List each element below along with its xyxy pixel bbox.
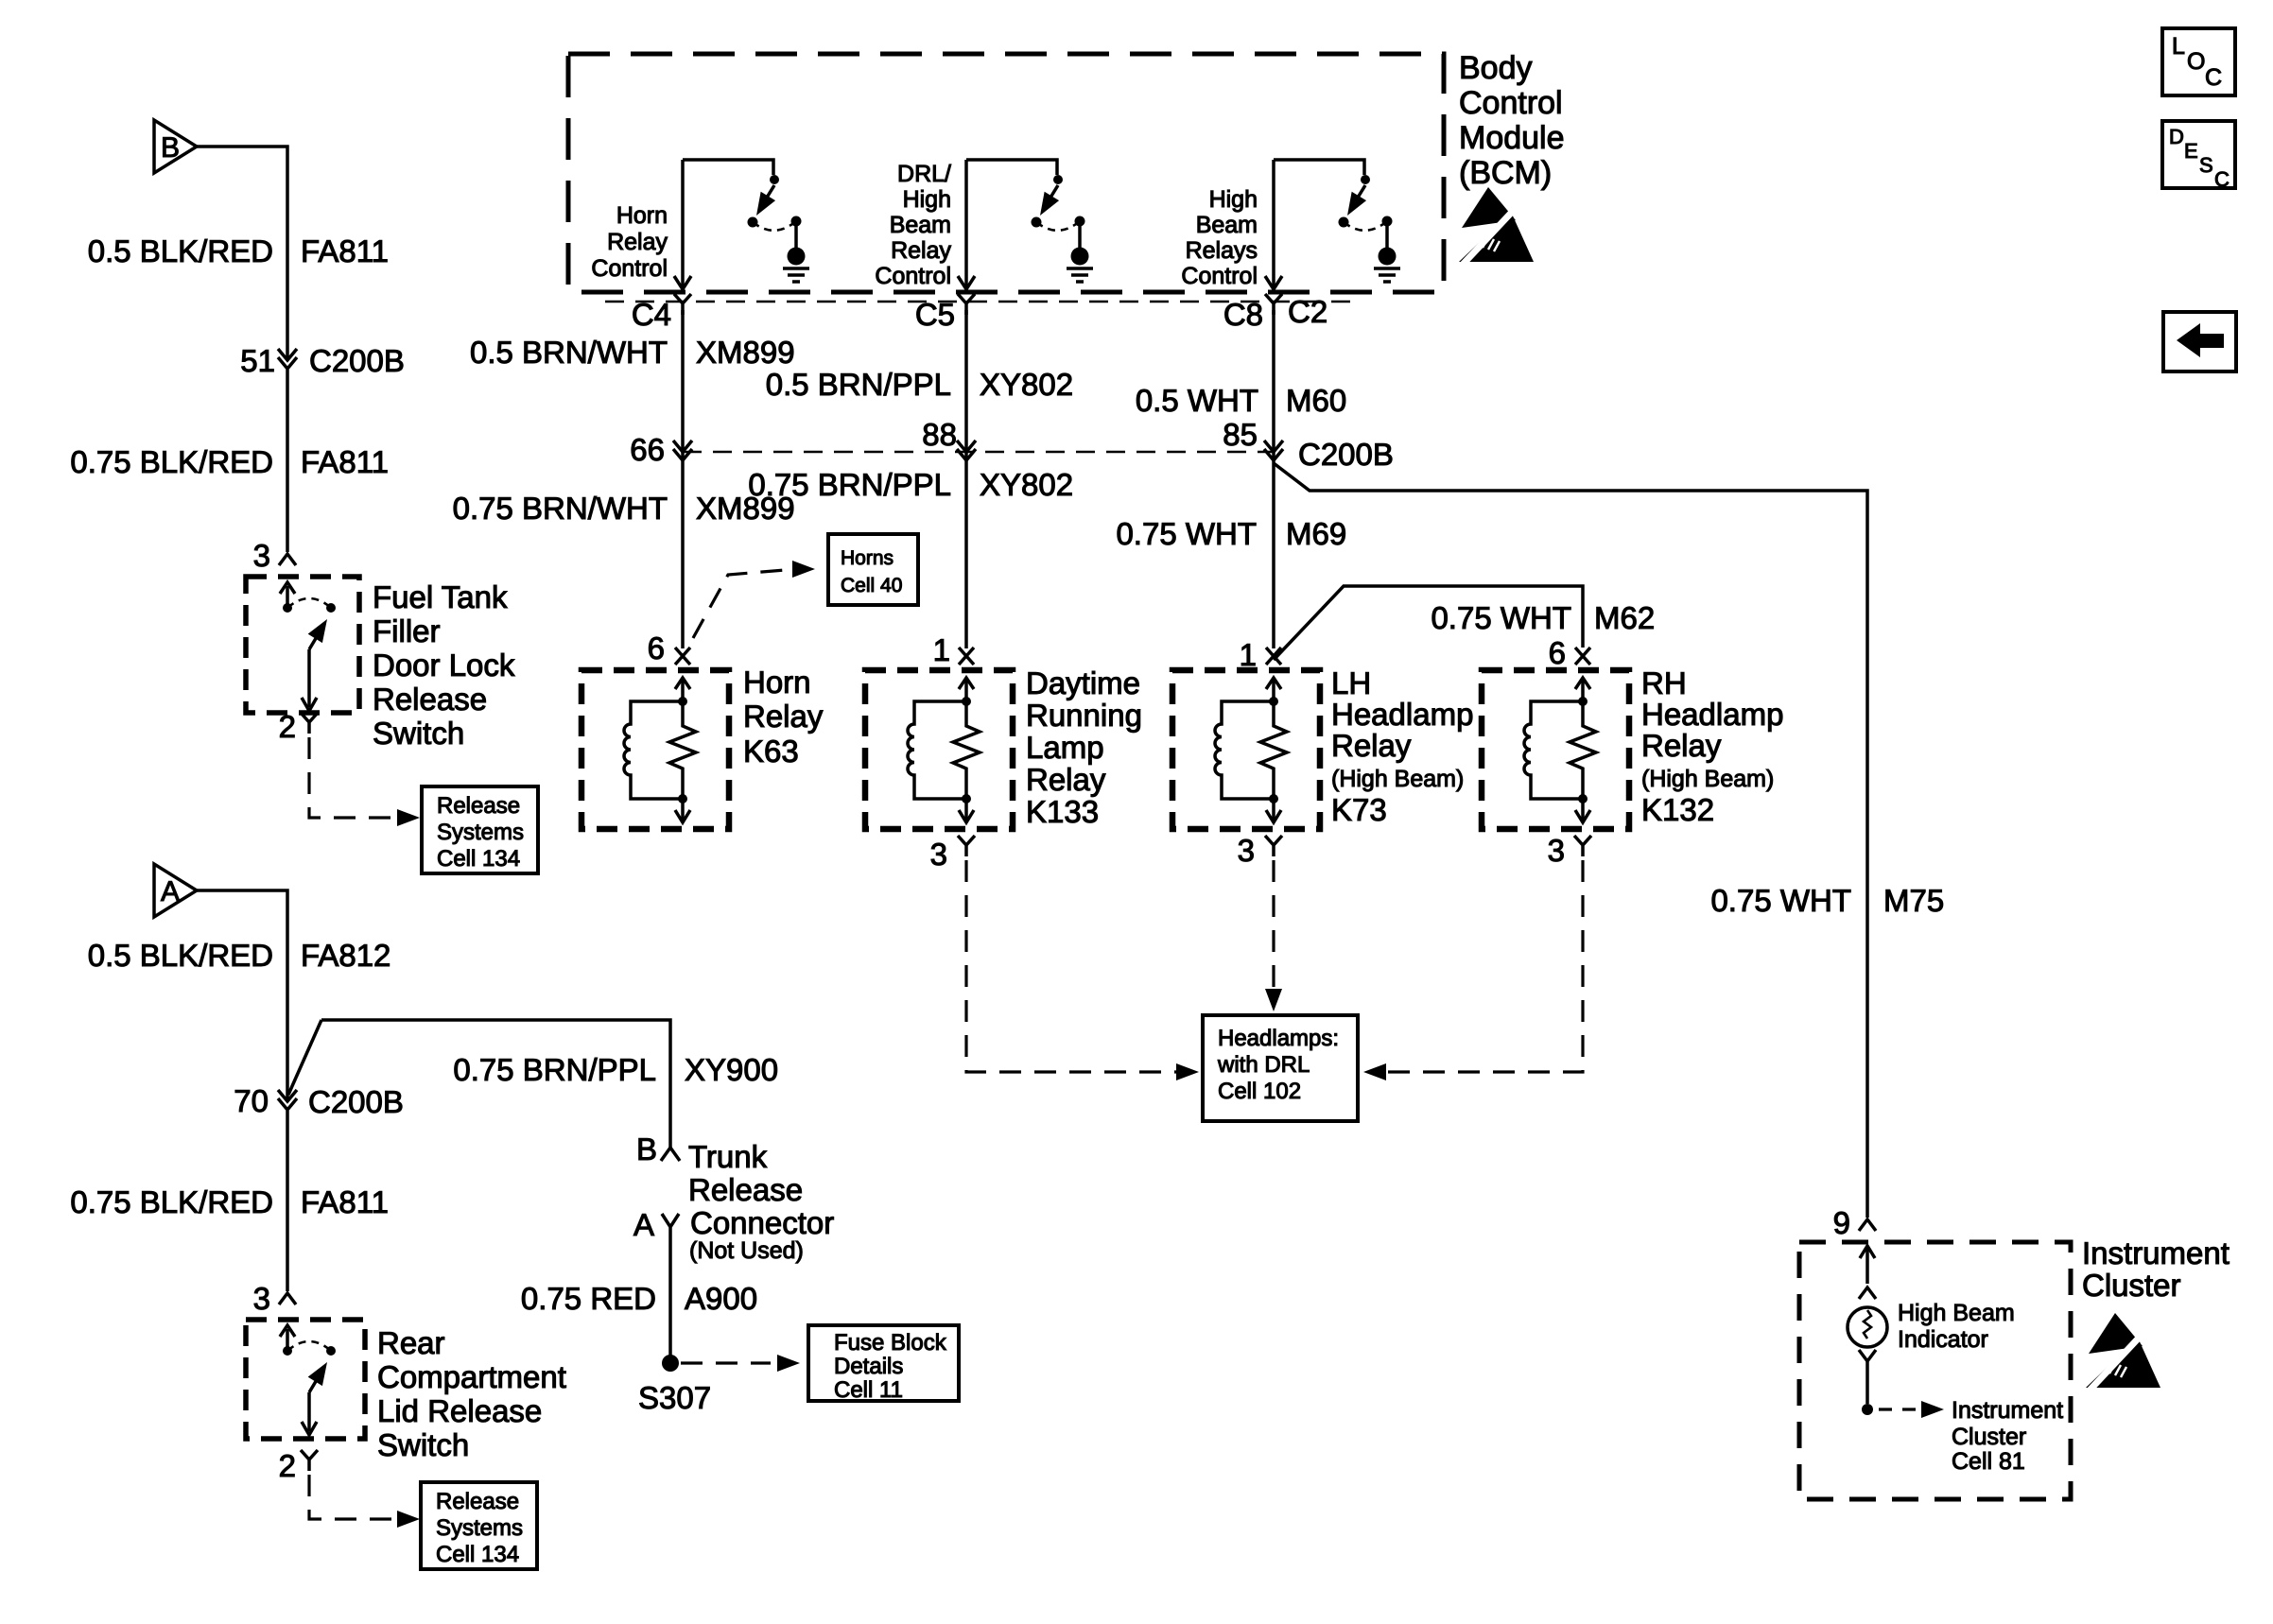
- svg-text:Relays: Relays: [1186, 237, 1258, 264]
- svg-text:0.75 BRN/PPL: 0.75 BRN/PPL: [748, 467, 951, 502]
- label DRL/High Beam Relay Control: [875, 161, 951, 289]
- svg-text:Lamp: Lamp: [1026, 730, 1104, 765]
- splice S307: [662, 1355, 679, 1372]
- svg-text:K133: K133: [1026, 794, 1099, 829]
- svg-text:0.75 WHT: 0.75 WHT: [1116, 516, 1257, 551]
- label Daytime Running Lamp Relay K133: [1026, 665, 1142, 829]
- svg-text:E: E: [2184, 139, 2198, 163]
- LH headlamp relay K73 box: [1172, 670, 1320, 829]
- Fuse Block Details Cell 11 box: [808, 1325, 959, 1401]
- dashed reference wire to release systems cell 134 (lower): [309, 1475, 397, 1519]
- svg-text:with DRL: with DRL: [1217, 1052, 1310, 1078]
- Body Control Module dashed box: [568, 54, 1444, 292]
- svg-text:XM899: XM899: [696, 335, 795, 370]
- svg-text:Lid Release: Lid Release: [377, 1393, 542, 1428]
- daytime running lamp relay K133 coil/resistor: [908, 678, 980, 822]
- back arrow box: [2163, 312, 2236, 371]
- DESC box: [2162, 121, 2235, 188]
- connector B pin (trunk): [661, 1148, 680, 1161]
- svg-text:K73: K73: [1331, 792, 1387, 827]
- connector chevron at indicator: [1859, 1287, 1876, 1299]
- svg-text:FA811: FA811: [301, 1184, 389, 1219]
- connector C8 pin: [1265, 294, 1282, 315]
- label High Beam Indicator: [1898, 1300, 2015, 1353]
- svg-text:Door Lock: Door Lock: [373, 648, 515, 682]
- svg-text:Indicator: Indicator: [1898, 1326, 1988, 1353]
- dashed reference wire to release systems cell 134: [309, 737, 397, 818]
- svg-text:Rear: Rear: [377, 1325, 445, 1360]
- svg-text:Switch: Switch: [373, 716, 464, 751]
- svg-text:Headlamps:: Headlamps:: [1218, 1026, 1339, 1051]
- Headlamps with DRL Cell 102 box: [1203, 1015, 1358, 1121]
- svg-text:0.75 BLK/RED: 0.75 BLK/RED: [70, 1184, 273, 1219]
- svg-text:Systems: Systems: [436, 1515, 523, 1541]
- svg-text:51: 51: [240, 343, 275, 378]
- svg-text:Cluster: Cluster: [1952, 1424, 2026, 1450]
- pin 1 connector (LH relay): [1266, 648, 1281, 665]
- svg-text:66: 66: [630, 432, 665, 467]
- svg-text:Fuel Tank: Fuel Tank: [373, 579, 508, 614]
- label Horn Relay K63: [743, 665, 824, 769]
- label Instrument Cluster Cell 81: [1952, 1397, 2063, 1475]
- svg-text:Release: Release: [436, 1489, 519, 1514]
- label 0.5 BLK/RED FA812: [88, 938, 391, 973]
- pin 9 connector: [1859, 1219, 1876, 1231]
- svg-text:Trunk: Trunk: [688, 1139, 768, 1174]
- rear compartment lid release switch: [280, 1325, 336, 1392]
- svg-text:A900: A900: [685, 1281, 757, 1316]
- daytime running lamp relay K133 box: [865, 670, 1013, 829]
- RH headlamp relay K132 box: [1482, 670, 1629, 829]
- label 0.75 WHT M75: [1710, 883, 1944, 918]
- connector Y below lamp: [1859, 1350, 1876, 1404]
- dashed wire K132 pin3 to headlamps box: [1382, 860, 1583, 1072]
- svg-text:Release: Release: [688, 1172, 803, 1207]
- connector triangle A: [154, 864, 197, 917]
- svg-text:C4: C4: [632, 297, 671, 332]
- svg-text:85: 85: [1223, 417, 1258, 452]
- svg-text:High: High: [903, 186, 951, 213]
- BCM label: [1459, 50, 1565, 191]
- svg-text:3: 3: [930, 837, 947, 872]
- svg-text:C200B: C200B: [1298, 437, 1394, 472]
- svg-text:Relay: Relay: [1331, 728, 1412, 763]
- svg-text:1: 1: [933, 632, 950, 667]
- svg-text:Cell 11: Cell 11: [834, 1377, 903, 1403]
- label LH Headlamp Relay (High Beam) K73: [1331, 665, 1473, 827]
- svg-text:0.5 BRN/PPL: 0.5 BRN/PPL: [766, 367, 951, 402]
- pin 1 connector (DRL relay): [959, 648, 974, 665]
- ESD symbol (cluster): [2086, 1313, 2160, 1394]
- connector 88 C200B: [957, 441, 976, 460]
- LOC box: [2162, 28, 2235, 95]
- horn relay K63 box: [581, 670, 729, 829]
- svg-text:Systems: Systems: [437, 820, 524, 845]
- svg-text:FA811: FA811: [301, 233, 389, 268]
- svg-text:Release: Release: [373, 682, 487, 717]
- svg-text:0.75 BRN/WHT: 0.75 BRN/WHT: [453, 491, 668, 526]
- RH headlamp relay K132 coil/resistor: [1524, 678, 1596, 822]
- svg-text:6: 6: [1549, 635, 1566, 670]
- svg-text:C5: C5: [915, 297, 955, 332]
- svg-text:XY802: XY802: [980, 467, 1073, 502]
- svg-text:0.75 WHT: 0.75 WHT: [1710, 883, 1851, 918]
- svg-text:S307: S307: [638, 1380, 711, 1415]
- connector C4 pin: [674, 294, 691, 315]
- svg-text:S: S: [2199, 153, 2213, 177]
- high beam relays driver switch (BCM internal): [1265, 160, 1400, 289]
- svg-text:0.75 RED: 0.75 RED: [521, 1281, 656, 1316]
- dashed wire K73 pin3 to headlamps box: [1272, 860, 1275, 989]
- label 0.75 WHT M62: [1431, 600, 1655, 635]
- svg-text:XY900: XY900: [685, 1052, 778, 1087]
- wire 0.75 FA811: [286, 370, 289, 552]
- label 0.75 WHT M69: [1116, 516, 1346, 551]
- fuel tank filler door lock release switch box: [246, 577, 359, 713]
- connector 66 C200B: [673, 441, 692, 460]
- svg-text:(High Beam): (High Beam): [1641, 766, 1774, 792]
- svg-text:Daytime: Daytime: [1026, 665, 1140, 700]
- pin 6 connector (horn relay): [675, 648, 690, 665]
- wire XY900 branch: [321, 1020, 670, 1148]
- svg-text:L: L: [2172, 33, 2185, 60]
- connector A pin (trunk): [662, 1214, 679, 1357]
- connector 70 C200B: [278, 1090, 297, 1110]
- wire FA811 from B: [197, 147, 287, 359]
- svg-text:A: A: [161, 876, 180, 907]
- svg-text:Headlamp: Headlamp: [1331, 697, 1473, 732]
- pin 3 connector (K132): [1574, 836, 1591, 856]
- svg-text:FA812: FA812: [301, 938, 390, 973]
- svg-text:Switch: Switch: [377, 1427, 469, 1462]
- pin 3 connector (fuel switch): [279, 554, 296, 565]
- diagonal into connector 70: [288, 1020, 321, 1095]
- svg-text:DRL/: DRL/: [897, 161, 951, 187]
- Horns Cell 40 box: [828, 534, 918, 605]
- label 0.75 BRN/PPL XY802: [748, 467, 1073, 502]
- label 0.75 BLK/RED FA811: [70, 444, 389, 479]
- label 0.5 BRN/PPL XY802: [766, 367, 1073, 402]
- label 0.5 BRN/WHT XM899: [470, 335, 795, 370]
- svg-text:C200B: C200B: [309, 343, 405, 378]
- svg-text:Relay: Relay: [607, 229, 668, 255]
- pin 6 connector (RH relay): [1575, 648, 1590, 665]
- svg-text:B: B: [161, 132, 180, 164]
- svg-text:Control: Control: [1459, 85, 1563, 121]
- svg-text:Control: Control: [875, 263, 951, 289]
- svg-text:3: 3: [1238, 833, 1255, 868]
- svg-text:M69: M69: [1286, 516, 1346, 551]
- svg-text:K63: K63: [743, 734, 799, 769]
- svg-text:Beam: Beam: [1196, 212, 1258, 238]
- svg-text:Instrument: Instrument: [2082, 1235, 2230, 1270]
- svg-text:Cell 102: Cell 102: [1218, 1079, 1301, 1104]
- svg-text:D: D: [2169, 125, 2184, 148]
- label 0.5 BLK/RED FA811: [88, 233, 389, 268]
- svg-text:0.5 BLK/RED: 0.5 BLK/RED: [88, 938, 273, 973]
- svg-text:Body: Body: [1459, 50, 1533, 86]
- svg-text:0.75 BLK/RED: 0.75 BLK/RED: [70, 444, 273, 479]
- svg-text:B: B: [636, 1132, 657, 1166]
- label Trunk Release Connector (Not Used): [688, 1139, 834, 1264]
- svg-text:70: 70: [234, 1083, 269, 1118]
- svg-text:K132: K132: [1641, 792, 1714, 827]
- wire 0.75 FA811 (A branch): [286, 1111, 289, 1291]
- svg-text:Release: Release: [437, 793, 520, 819]
- junction node in cluster: [1862, 1404, 1873, 1415]
- instrument cluster dashed box: [1799, 1242, 2071, 1499]
- rear compartment lid release switch box: [246, 1320, 365, 1439]
- svg-text:A: A: [633, 1207, 654, 1242]
- LH headlamp relay K73 coil/resistor: [1215, 678, 1287, 822]
- label 0.75 RED A900: [521, 1281, 757, 1316]
- pin 2 connector (rear switch): [301, 1450, 318, 1471]
- svg-text:C8: C8: [1223, 297, 1263, 332]
- pin 3 connector (rear switch): [279, 1293, 296, 1304]
- label RH Headlamp Relay (High Beam) K132: [1641, 665, 1783, 827]
- svg-text:Instrument: Instrument: [1952, 1397, 2063, 1424]
- svg-text:Relay: Relay: [1026, 762, 1106, 797]
- svg-text:Cell 40: Cell 40: [841, 575, 902, 596]
- svg-text:Control: Control: [591, 255, 668, 282]
- svg-text:RH: RH: [1641, 665, 1687, 700]
- svg-text:0.75 BRN/PPL: 0.75 BRN/PPL: [453, 1052, 656, 1087]
- dashed reference arrow to Horns Cell 40: [693, 569, 796, 638]
- wire M62 branch to RH relay: [1274, 586, 1583, 660]
- svg-text:Horns: Horns: [841, 547, 894, 569]
- wire M75 run to instrument cluster: [1274, 463, 1867, 1218]
- label 0.75 BRN/WHT XM899: [453, 491, 795, 526]
- svg-text:0.5 BLK/RED: 0.5 BLK/RED: [88, 233, 273, 268]
- pin 2 connector (fuel switch): [301, 713, 318, 734]
- svg-text:0.75 WHT: 0.75 WHT: [1431, 600, 1571, 635]
- svg-text:O: O: [2187, 48, 2205, 75]
- svg-text:Cell 134: Cell 134: [436, 1542, 519, 1567]
- svg-text:Fuse Block: Fuse Block: [834, 1330, 947, 1356]
- svg-text:Headlamp: Headlamp: [1641, 697, 1783, 732]
- svg-text:0.5 BRN/WHT: 0.5 BRN/WHT: [470, 335, 668, 370]
- svg-text:Horn: Horn: [616, 202, 668, 229]
- wire XM899 (C4 column): [681, 310, 685, 648]
- label 0.75 BRN/PPL XY900: [453, 1052, 778, 1087]
- label Fuel Tank Filler Door Lock Release Switch: [373, 579, 515, 751]
- svg-text:C200B: C200B: [308, 1084, 404, 1119]
- svg-text:Horn: Horn: [743, 665, 811, 700]
- svg-text:C2: C2: [1288, 294, 1327, 329]
- wire M60/M69 (C8 column): [1272, 310, 1275, 648]
- svg-text:3: 3: [1548, 833, 1565, 868]
- svg-text:C: C: [2214, 167, 2230, 191]
- svg-text:Details: Details: [834, 1354, 903, 1379]
- high beam indicator lamp: [1848, 1307, 1887, 1347]
- label Horn Relay Control: [591, 202, 668, 282]
- svg-text:Cell 81: Cell 81: [1952, 1448, 2025, 1475]
- svg-text:1: 1: [1240, 637, 1257, 672]
- svg-text:Cluster: Cluster: [2082, 1268, 2181, 1303]
- svg-text:9: 9: [1833, 1205, 1850, 1240]
- svg-text:Compartment: Compartment: [377, 1359, 566, 1394]
- svg-text:High: High: [1209, 186, 1258, 213]
- svg-text:M62: M62: [1594, 600, 1655, 635]
- svg-text:88: 88: [922, 417, 957, 452]
- svg-text:Beam: Beam: [890, 212, 951, 238]
- svg-text:6: 6: [648, 631, 665, 665]
- connector 85 C200B: [1264, 441, 1283, 460]
- wire FA812 from A: [197, 890, 287, 1100]
- svg-text:Cell 134: Cell 134: [437, 846, 520, 872]
- svg-text:LH: LH: [1331, 665, 1371, 700]
- svg-text:Relay: Relay: [743, 699, 824, 734]
- C200B inline connector dashed bus: [683, 451, 1274, 454]
- svg-text:C: C: [2205, 64, 2222, 91]
- horn relay K63 coil/resistor: [624, 678, 696, 822]
- BCM connector row dashed line: [605, 301, 1352, 303]
- svg-text:Control: Control: [1181, 263, 1258, 289]
- connector 51 C200B: [278, 349, 297, 369]
- pin 3 connector (K73): [1265, 836, 1282, 856]
- svg-text:Running: Running: [1026, 698, 1142, 733]
- label High Beam Relays Control: [1181, 186, 1258, 289]
- dashed wire K133 pin3 to headlamps box: [966, 860, 1180, 1072]
- DRL/high beam relay driver switch (BCM internal): [958, 160, 1093, 289]
- fuel tank filler door lock release switch: [280, 582, 336, 649]
- svg-text:FA811: FA811: [301, 444, 389, 479]
- label 0.5 WHT M60: [1136, 383, 1346, 418]
- svg-text:2: 2: [279, 1448, 296, 1483]
- label 0.75 BLK/RED FA811: [70, 1184, 389, 1219]
- dashed reference wire to fuse block: [681, 1361, 771, 1364]
- svg-text:(BCM): (BCM): [1459, 155, 1552, 191]
- svg-text:Module: Module: [1459, 120, 1565, 156]
- svg-text:2: 2: [279, 709, 296, 744]
- svg-text:Relay: Relay: [1641, 728, 1722, 763]
- svg-text:0.5 WHT: 0.5 WHT: [1136, 383, 1258, 418]
- svg-text:(High Beam): (High Beam): [1331, 766, 1464, 792]
- svg-text:M75: M75: [1883, 883, 1944, 918]
- connector triangle B: [154, 120, 197, 173]
- svg-text:3: 3: [253, 1281, 270, 1316]
- svg-text:M60: M60: [1286, 383, 1346, 418]
- Release Systems Cell 134 box (lower): [421, 1482, 537, 1569]
- svg-text:3: 3: [253, 538, 270, 573]
- label Rear Compartment Lid Release Switch: [377, 1325, 566, 1462]
- ESD symbol (BCM): [1459, 187, 1534, 268]
- label Instrument Cluster: [2082, 1235, 2230, 1303]
- svg-text:Relay: Relay: [891, 237, 951, 264]
- wire XY802 (C5 column): [964, 310, 968, 648]
- svg-text:(Not Used): (Not Used): [689, 1237, 804, 1264]
- svg-text:XY802: XY802: [980, 367, 1073, 402]
- dashed reference arrow to instrument cluster cell 81: [1879, 1408, 1916, 1410]
- wire into cluster with up arrow: [1865, 1248, 1869, 1284]
- connector C5 pin: [958, 294, 975, 315]
- svg-text:High Beam: High Beam: [1898, 1300, 2015, 1326]
- horn relay driver switch (BCM internal): [674, 160, 809, 289]
- pin 3 connector (K133): [958, 836, 975, 856]
- svg-text:Filler: Filler: [373, 613, 441, 648]
- svg-text:Connector: Connector: [690, 1205, 834, 1240]
- Release Systems Cell 134 box (upper): [422, 786, 538, 873]
